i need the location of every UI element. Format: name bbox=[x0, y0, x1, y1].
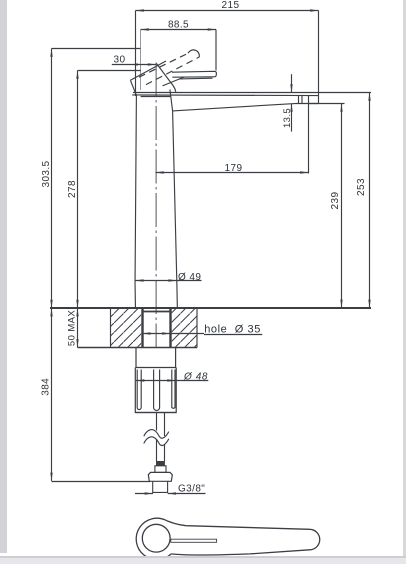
svg-text:239: 239 bbox=[330, 192, 341, 210]
faucet column right edge bbox=[170, 90, 177, 308]
nut slot right bbox=[172, 370, 175, 409]
lever handle dashed raised position bbox=[139, 53, 199, 84]
break symbol wave lower bbox=[144, 437, 169, 446]
countertop deck bottom line bbox=[78, 347, 198, 349]
nut slot left bbox=[137, 370, 141, 410]
page border left strip bbox=[0, 0, 7, 553]
hose crimp dark band bbox=[156, 461, 165, 466]
countertop right block hatched bbox=[172, 308, 198, 348]
svg-text:50 MAX: 50 MAX bbox=[67, 310, 78, 346]
wire dimension 50 MAX vertical bbox=[76, 308, 78, 347]
svg-text:253: 253 bbox=[356, 178, 367, 196]
spout underside line bbox=[173, 103, 319, 111]
wire extension line B x=140.4 bbox=[140, 30, 142, 91]
aerator face extension to 179 bbox=[308, 95, 310, 173]
faucet head back edge bbox=[130, 80, 136, 95]
lever handle solid closed position bbox=[163, 71, 217, 86]
wire dimension G3/8 bbox=[135, 492, 206, 494]
shank wall right thick bbox=[169, 308, 171, 348]
faucet centerline bbox=[155, 63, 157, 348]
wire extension 253 top y=92.1 bbox=[319, 92, 372, 94]
svg-text:303.5: 303.5 bbox=[41, 160, 52, 187]
svg-text:179: 179 bbox=[225, 163, 243, 174]
wire dimension 179 line bbox=[155, 171, 308, 173]
page border right strip bbox=[403, 0, 406, 556]
wire extension 303.5 top y=48 bbox=[52, 48, 141, 50]
svg-text:hole Ø 35: hole Ø 35 bbox=[204, 323, 261, 335]
wire dimension diameter 48 bbox=[136, 379, 208, 381]
spout top line bbox=[133, 92, 319, 94]
spout second top line bbox=[132, 94, 318, 97]
svg-text:384: 384 bbox=[41, 378, 52, 396]
lever raised tip arc bbox=[188, 50, 199, 57]
svg-text:278: 278 bbox=[67, 180, 78, 198]
svg-text:215: 215 bbox=[222, 0, 240, 11]
shank inner line below deck bbox=[143, 311, 171, 313]
svg-text:Ø 49: Ø 49 bbox=[178, 272, 201, 283]
mounting nut outline bbox=[135, 368, 176, 413]
mounting nut bottom line bbox=[135, 412, 176, 414]
wire dimension 384 vertical bbox=[50, 308, 52, 481]
wire dimension diameter 49 bbox=[135, 279, 201, 281]
svg-text:G3/8": G3/8" bbox=[178, 484, 205, 495]
wire extension 278 top y=70.6 bbox=[78, 70, 142, 72]
detail handle slot bbox=[171, 539, 217, 542]
supply hose upper bbox=[157, 413, 165, 437]
svg-text:88.5: 88.5 bbox=[168, 19, 189, 30]
detail handle inner circle bbox=[142, 524, 170, 552]
wire extension 384 bottom y=481 bbox=[52, 481, 151, 483]
svg-text:30: 30 bbox=[114, 55, 126, 66]
mounting flange below deck bbox=[136, 348, 176, 368]
wire dimension 13.5 vertical bbox=[290, 74, 292, 131]
wire label underline hole bbox=[204, 334, 262, 336]
faucet column left edge bbox=[135, 95, 136, 307]
page border bottom line bbox=[0, 556, 406, 558]
wire extension line A x=135.1 bbox=[135, 11, 137, 97]
spout tip face bbox=[318, 93, 320, 104]
nut slot middle bbox=[154, 370, 160, 411]
supply hose lower bbox=[157, 439, 165, 461]
G3/8 thread cylinder bbox=[153, 481, 168, 492]
hose hex nut bbox=[148, 472, 172, 481]
wire dimension 88.5 line bbox=[141, 28, 217, 30]
break symbol wave upper bbox=[144, 430, 169, 439]
svg-text:Ø 48: Ø 48 bbox=[183, 372, 208, 383]
countertop deck top line bbox=[50, 307, 371, 309]
wire dimension 239 vertical bbox=[340, 104, 342, 308]
faucet head column joint line bbox=[141, 96, 171, 98]
wire dimension 303.5 vertical bbox=[50, 49, 52, 309]
detail handle arm bbox=[167, 521, 320, 555]
aerator tick 2 bbox=[301, 95, 303, 103]
hose collar bbox=[155, 466, 166, 473]
wire extension lever tip x=215.9 bbox=[215, 30, 217, 71]
wire dimension 215 line bbox=[136, 9, 319, 11]
aerator tick 1 bbox=[298, 95, 300, 103]
page border bottom strip bbox=[0, 558, 406, 564]
detail handle outer ring arc bbox=[136, 518, 171, 559]
faucet head top diagonal bbox=[130, 61, 166, 80]
wire dimension 253 vertical bbox=[368, 93, 370, 308]
wire extension 239 top y=103.1 bbox=[309, 103, 345, 105]
wire dimension hole diameter 35 bbox=[142, 332, 204, 334]
svg-text:13.5: 13.5 bbox=[282, 108, 293, 128]
wire extension spout tip x=318.5 bbox=[318, 11, 320, 93]
faucet head front diagonal bbox=[157, 64, 176, 92]
wire dimension 30 line bbox=[112, 63, 156, 65]
wire dimension 278 vertical bbox=[76, 71, 78, 309]
countertop left block hatched bbox=[111, 308, 142, 348]
shank wall left thick bbox=[141, 308, 143, 348]
